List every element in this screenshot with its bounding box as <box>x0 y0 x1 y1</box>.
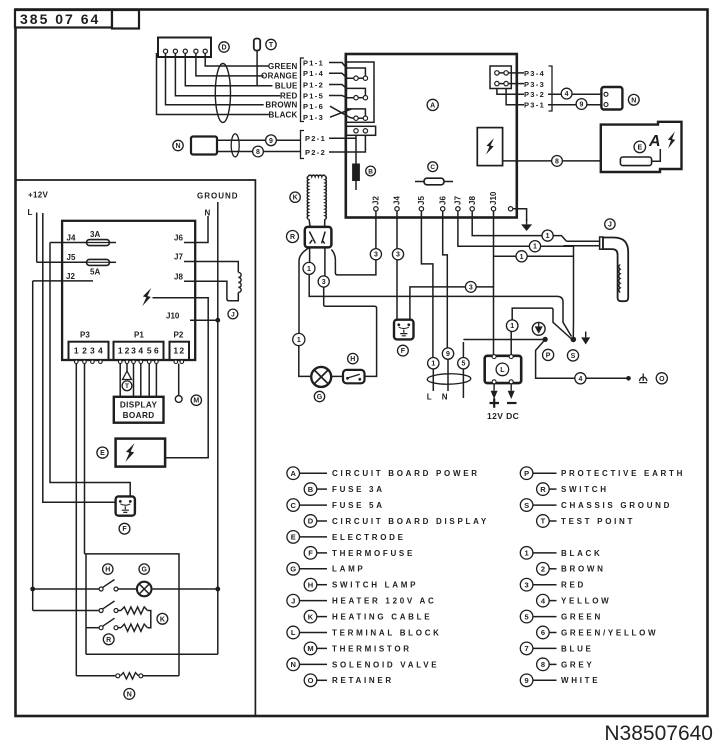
svg-text:2: 2 <box>82 346 87 356</box>
solenoid coil N bottom <box>116 673 143 679</box>
svg-text:SWITCH: SWITCH <box>561 485 609 494</box>
svg-text:F: F <box>122 526 127 533</box>
svg-text:1: 1 <box>307 266 311 273</box>
wire P to retainer <box>536 339 627 378</box>
svg-text:5A: 5A <box>90 268 100 277</box>
fuse 5A left board <box>37 259 116 276</box>
wires P1 labels to board <box>329 63 354 98</box>
title box 385 07 64 <box>15 10 139 29</box>
svg-text:P1-2: P1-2 <box>303 80 324 89</box>
svg-text:9: 9 <box>269 138 273 145</box>
svg-text:YELLOW: YELLOW <box>561 597 611 606</box>
svg-text:P1-3: P1-3 <box>303 113 324 122</box>
label O <box>656 373 667 384</box>
label R top <box>287 231 299 243</box>
svg-text:TERMINAL BLOCK: TERMINAL BLOCK <box>332 628 442 637</box>
electrode E resistor <box>620 149 660 166</box>
wire L block to battery minus <box>508 384 515 399</box>
svg-text:ELECTRODE: ELECTRODE <box>332 533 406 542</box>
svg-text:1: 1 <box>173 346 178 356</box>
switch K row2 <box>99 618 118 630</box>
svg-text:9: 9 <box>580 102 584 109</box>
label BROWN <box>265 101 297 110</box>
wire BROWN <box>166 53 264 105</box>
node P junction <box>543 337 548 342</box>
svg-text:2: 2 <box>541 565 545 574</box>
legend O RETAINER <box>304 674 394 687</box>
thermistor M <box>175 364 182 403</box>
label 1 on R wire upper <box>303 262 315 274</box>
svg-text:L: L <box>291 628 296 637</box>
svg-text:SWITCH LAMP: SWITCH LAMP <box>332 581 418 590</box>
legend 2 BROWN <box>537 562 606 575</box>
svg-text:DISPLAY: DISPLAY <box>120 401 158 410</box>
label 8 on electrode wire <box>552 156 563 167</box>
svg-text:J10: J10 <box>166 312 180 321</box>
terminal J4 of board A <box>393 196 402 211</box>
ground arrow at S <box>581 332 590 345</box>
legend F THERMOFUSE <box>304 547 415 560</box>
spark generator box <box>477 128 502 166</box>
label H left <box>103 564 113 574</box>
svg-text:P3-3: P3-3 <box>524 80 545 89</box>
legend T TEST POINT <box>537 515 636 528</box>
part number N38507640 <box>604 722 713 745</box>
svg-text:P1-4: P1-4 <box>303 69 324 78</box>
wire P3 pin1 rail <box>75 364 77 676</box>
ground arrow board A <box>521 219 532 231</box>
switch R box <box>305 227 332 248</box>
label J2 left board <box>66 272 75 281</box>
legend H SWITCH LAMP <box>304 578 418 591</box>
label J6 left board <box>174 234 183 243</box>
svg-text:GREEN: GREEN <box>268 62 297 71</box>
label G left <box>139 564 149 574</box>
solenoid valve N left box <box>191 137 217 155</box>
terminal block L <box>485 355 522 384</box>
label ORANGE <box>261 72 298 81</box>
lamp G left <box>137 582 152 597</box>
electrode E glyph <box>648 132 675 151</box>
P1 connector labels <box>301 58 325 122</box>
switch lamp H box <box>343 370 365 383</box>
connector P2 pin box <box>346 126 375 135</box>
wire spark to electrode E <box>503 160 620 162</box>
legend R SWITCH <box>537 483 609 496</box>
label 8 on solenoid wire <box>253 146 264 157</box>
wire solenoid to P2-1 <box>217 139 300 141</box>
label T left <box>122 381 132 391</box>
wire lamp row <box>33 588 218 590</box>
svg-text:P2: P2 <box>174 331 184 340</box>
svg-text:CIRCUIT BOARD POWER: CIRCUIT BOARD POWER <box>332 469 480 478</box>
svg-text:M: M <box>193 398 199 405</box>
wire board earth to ground <box>513 209 527 221</box>
label 1 on L block wire <box>506 320 518 332</box>
label 3 on J4 wire <box>392 249 403 260</box>
svg-text:2: 2 <box>125 346 130 356</box>
heater J elbow 120V AC <box>600 237 629 301</box>
label L block <box>496 363 509 376</box>
heater coil left <box>238 272 241 292</box>
svg-text:G: G <box>141 567 147 574</box>
node J10 ground junction <box>215 318 220 323</box>
legend 6 GREEN/YELLOW <box>537 626 659 639</box>
svg-text:385 07 64: 385 07 64 <box>20 11 100 27</box>
connector P1 pin box <box>346 62 374 122</box>
svg-text:FUSE 3A: FUSE 3A <box>332 485 385 494</box>
svg-text:THERMISTOR: THERMISTOR <box>332 644 412 653</box>
svg-text:P: P <box>524 469 529 478</box>
terminal J5 of board A <box>417 196 426 211</box>
svg-text:P: P <box>546 352 551 359</box>
svg-text:4: 4 <box>98 346 103 356</box>
label N lead <box>442 393 448 402</box>
node lamp row right <box>215 587 220 592</box>
P2 connector labels <box>301 131 327 159</box>
wire P3-2 to solenoid valve <box>497 89 603 95</box>
svg-text:P3-1: P3-1 <box>524 101 545 110</box>
svg-text:1: 1 <box>118 346 123 356</box>
label 3 on J2 wire <box>370 249 381 260</box>
legend 8 GREY <box>537 658 595 671</box>
svg-text:L: L <box>28 208 33 217</box>
svg-text:P1-1: P1-1 <box>303 58 324 67</box>
label plus <box>490 398 500 407</box>
svg-text:5: 5 <box>525 612 529 621</box>
label S <box>567 350 578 361</box>
svg-text:J10: J10 <box>489 191 498 205</box>
label 1 on R wire lower <box>293 333 305 345</box>
wire J2 left board <box>33 280 93 282</box>
legend 9 WHITE <box>520 674 600 687</box>
svg-text:G: G <box>290 565 296 574</box>
svg-text:BLACK: BLACK <box>561 549 603 558</box>
svg-text:3A: 3A <box>90 230 100 239</box>
legend L TERMINAL BLOCK <box>287 626 442 639</box>
svg-text:BLACK: BLACK <box>269 110 298 119</box>
terminal J7 of board A <box>454 196 463 211</box>
legend P PROTECTIVE EARTH <box>520 467 685 480</box>
svg-text:P1-6: P1-6 <box>303 102 324 111</box>
svg-text:12V DC: 12V DC <box>487 411 519 421</box>
svg-text:RETAINER: RETAINER <box>332 676 394 685</box>
svg-text:N: N <box>290 660 295 669</box>
label E left <box>97 447 108 458</box>
label RED <box>280 92 298 101</box>
wire solenoid to P2-2 <box>217 151 300 153</box>
connector P2 left board <box>170 342 190 364</box>
svg-text:N: N <box>127 691 132 698</box>
svg-text:E: E <box>100 450 105 457</box>
wire J10 branch to chassis ground <box>494 256 574 337</box>
wire J10 to ground rail <box>190 319 218 321</box>
svg-text:FUSE 5A: FUSE 5A <box>332 501 385 510</box>
label J10 left board <box>166 312 180 321</box>
label N bottom <box>124 689 135 700</box>
svg-text:1: 1 <box>546 233 550 240</box>
heating element K row1 <box>118 607 148 614</box>
wire green lead to protective earth <box>463 340 543 358</box>
svg-text:F: F <box>401 348 406 355</box>
label N solenoid right <box>628 94 639 105</box>
svg-text:BLUE: BLUE <box>561 644 594 653</box>
svg-text:BOARD: BOARD <box>123 411 155 420</box>
svg-text:S: S <box>524 501 529 510</box>
terminal J8 of board A <box>468 196 477 211</box>
svg-text:J8: J8 <box>468 196 477 205</box>
svg-text:3: 3 <box>322 279 326 286</box>
svg-text:J7: J7 <box>454 196 463 205</box>
svg-text:8: 8 <box>256 149 260 156</box>
label 1 on J10 branch <box>516 251 527 262</box>
svg-text:1: 1 <box>74 346 79 356</box>
label +12V <box>28 191 48 200</box>
legend 1 BLACK <box>520 547 602 560</box>
label P3 connector left <box>80 331 90 340</box>
label J coil <box>228 309 238 319</box>
svg-text:3: 3 <box>374 252 378 259</box>
label 3 on thermofuse wire <box>465 282 476 293</box>
svg-text:THERMOFUSE: THERMOFUSE <box>332 549 415 558</box>
svg-text:H: H <box>105 567 110 574</box>
lamp G mid <box>311 367 331 387</box>
svg-text:1: 1 <box>431 361 435 368</box>
wire J7 to coil <box>184 262 238 273</box>
svg-text:GROUND: GROUND <box>197 192 239 201</box>
svg-text:CHASSIS GROUND: CHASSIS GROUND <box>561 501 672 510</box>
label J elbow <box>605 219 615 229</box>
legend 5 GREEN <box>520 610 603 623</box>
label 9 on P3-1 wire <box>576 99 587 110</box>
label 1 on J5 wire <box>428 358 439 369</box>
label A <box>427 99 438 110</box>
legend E ELECTRODE <box>287 531 406 544</box>
svg-text:S: S <box>571 353 576 360</box>
svg-text:J8: J8 <box>174 273 183 282</box>
wire L rail <box>36 213 38 263</box>
svg-text:P1: P1 <box>134 331 144 340</box>
wire J2 to switch R <box>331 211 376 275</box>
fuse 3A left board <box>50 230 116 246</box>
svg-text:L: L <box>427 393 432 402</box>
wire third lead <box>462 369 464 398</box>
svg-text:F: F <box>308 549 313 558</box>
label 4 on earth wire <box>575 373 586 384</box>
legend M THERMISTOR <box>304 642 412 655</box>
label M <box>191 395 201 405</box>
svg-text:J4: J4 <box>67 234 76 243</box>
legend 4 YELLOW <box>537 594 612 607</box>
node lamp row left <box>30 587 35 592</box>
svg-text:J6: J6 <box>174 234 183 243</box>
svg-text:8: 8 <box>555 158 559 165</box>
wire bottom loop <box>76 675 179 677</box>
svg-text:K: K <box>308 612 314 621</box>
label T <box>266 39 276 49</box>
svg-text:1: 1 <box>533 244 537 251</box>
electrode E left box <box>116 439 166 467</box>
legend A CIRCUIT BOARD POWER <box>287 467 480 480</box>
label B <box>366 166 376 176</box>
label J5 left board <box>67 253 76 262</box>
wire lamp to switch H <box>331 375 343 377</box>
svg-text:9: 9 <box>525 676 529 685</box>
label GROUND <box>197 192 239 201</box>
svg-text:T: T <box>125 383 129 390</box>
label 9 on J6 wire <box>442 348 453 359</box>
svg-text:5: 5 <box>461 361 465 368</box>
label N solenoid left <box>173 140 183 150</box>
display board box <box>114 397 164 423</box>
label J4 left board <box>67 234 76 243</box>
svg-text:P1-5: P1-5 <box>303 91 324 100</box>
legend J HEATER 120V AC <box>287 594 437 607</box>
label K left <box>157 613 168 624</box>
wire J7 to chassis ground <box>458 211 574 256</box>
cable ellipse around display wires <box>215 64 230 123</box>
svg-text:N: N <box>175 143 180 150</box>
node retainer O <box>626 376 631 381</box>
legend N SOLENOID VALVE <box>287 658 439 671</box>
svg-text:E: E <box>291 533 296 542</box>
svg-text:T: T <box>541 517 546 526</box>
svg-text:N: N <box>442 393 448 402</box>
legend 3 RED <box>520 578 586 591</box>
left enclosure box <box>16 180 255 716</box>
svg-text:7: 7 <box>525 644 529 653</box>
wire P3 pin2 rail <box>85 364 87 655</box>
svg-text:HEATING CABLE: HEATING CABLE <box>332 613 432 622</box>
solenoid valve N right box <box>601 87 622 110</box>
wire J2 rail to lamp row <box>32 281 34 611</box>
wire K row2 <box>86 627 99 629</box>
svg-text:H: H <box>350 356 355 363</box>
svg-text:9: 9 <box>446 351 450 358</box>
circuit board power A box <box>346 54 517 218</box>
svg-text:4: 4 <box>138 346 143 356</box>
svg-text:H: H <box>308 580 313 589</box>
svg-text:O: O <box>308 676 314 685</box>
switch K row1 <box>99 601 118 613</box>
wire J8 to heater <box>472 211 600 246</box>
wire ground loop <box>86 653 218 655</box>
svg-text:M: M <box>307 644 313 653</box>
wire L block to S junction <box>511 308 571 355</box>
svg-text:C: C <box>290 501 296 510</box>
wire GREEN <box>205 53 269 66</box>
fuse B 3A <box>353 138 360 190</box>
heating cable K tube <box>307 175 326 227</box>
connector P1 left board <box>114 342 164 364</box>
label J7 left board <box>174 253 183 262</box>
legend G LAMP <box>287 562 366 575</box>
svg-text:6: 6 <box>541 628 545 637</box>
wire spark to electrode left <box>137 298 208 458</box>
wire J4 to thermofuse F <box>396 211 398 321</box>
svg-text:LAMP: LAMP <box>332 565 365 574</box>
legend D CIRCUIT BOARD DISPLAY <box>304 515 489 528</box>
label L lead <box>427 393 432 402</box>
P3 connector labels <box>524 66 552 111</box>
connector D circuit board display <box>158 38 211 58</box>
label H mid <box>348 353 358 363</box>
label C <box>428 162 438 172</box>
terminal J10 of board A <box>489 191 498 211</box>
label 4 on P3-2 wire <box>561 88 572 99</box>
wire J4 rail to thermofuse F <box>50 243 130 501</box>
label 1 on J7 wire <box>529 241 540 252</box>
label BLACK <box>269 110 298 119</box>
label N supply <box>205 209 211 218</box>
connector P3 left board <box>69 342 109 364</box>
svg-text:D: D <box>308 517 314 526</box>
svg-text:2: 2 <box>179 346 184 356</box>
svg-text:J2: J2 <box>372 196 381 205</box>
label minus <box>507 402 517 404</box>
svg-text:1: 1 <box>297 337 301 344</box>
svg-text:G: G <box>317 394 323 401</box>
wire R pin to chassis run <box>309 248 571 337</box>
svg-text:E: E <box>637 144 642 151</box>
wires P2 labels to pin box <box>329 136 365 153</box>
cable ellipse solenoid <box>231 134 239 157</box>
label P <box>543 349 554 360</box>
svg-text:J7: J7 <box>174 253 183 262</box>
label F left <box>119 523 130 534</box>
terminal earth of board A <box>508 207 512 211</box>
svg-text:6: 6 <box>154 346 159 356</box>
svg-text:4: 4 <box>578 376 582 383</box>
svg-text:BROWN: BROWN <box>561 565 606 574</box>
svg-text:J4: J4 <box>393 196 402 205</box>
wire L block to battery plus <box>491 384 498 399</box>
wire R pin to switch H <box>324 248 377 376</box>
label 3 on R wire <box>318 276 329 287</box>
wire J10 down to terminal block <box>493 211 495 355</box>
svg-text:J5: J5 <box>417 196 426 205</box>
wire RED <box>175 53 280 96</box>
svg-text:J6: J6 <box>438 196 447 205</box>
svg-text:3: 3 <box>131 346 136 356</box>
cable ellipse 120V leads <box>427 373 471 384</box>
wire J5 to cable <box>421 211 433 391</box>
svg-text:CIRCUIT BOARD DISPLAY: CIRCUIT BOARD DISPLAY <box>332 517 489 526</box>
svg-text:4: 4 <box>565 91 569 98</box>
svg-text:K: K <box>293 195 298 202</box>
label R left <box>103 634 114 645</box>
label P2 connector left <box>174 331 184 340</box>
svg-text:SOLENOID VALVE: SOLENOID VALVE <box>332 660 439 669</box>
wires P1 to display board <box>120 364 156 397</box>
svg-text:A: A <box>290 469 296 478</box>
svg-text:B: B <box>368 168 373 175</box>
label G mid <box>314 391 324 401</box>
svg-text:1: 1 <box>510 323 514 330</box>
svg-text:K: K <box>160 616 165 623</box>
svg-text:R: R <box>290 234 295 241</box>
svg-text:PROTECTIVE EARTH: PROTECTIVE EARTH <box>561 469 685 478</box>
wire thermofuse to terminal block <box>410 287 494 320</box>
legend S CHASSIS GROUND <box>520 499 672 512</box>
label E right <box>634 141 646 153</box>
label F mid <box>398 345 409 356</box>
legend K HEATING CABLE <box>304 610 432 623</box>
wire J6 to cable <box>443 211 448 391</box>
wire J8 to coil <box>184 281 238 301</box>
wire P3-1 to solenoid valve <box>506 89 603 105</box>
protective earth symbol <box>532 322 545 335</box>
